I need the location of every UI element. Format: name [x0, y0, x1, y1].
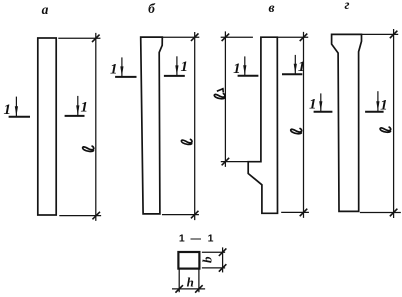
column a outline — [38, 38, 56, 215]
section square 1-1 — [178, 252, 199, 269]
dimension line l column v right — [278, 33, 308, 218]
section title 1 - 1 — [179, 233, 215, 245]
svg-text:в: в — [268, 0, 274, 15]
dimension line l column b — [163, 33, 199, 220]
dimension b (section) — [203, 248, 226, 272]
svg-text:1: 1 — [233, 61, 241, 77]
svg-text:а: а — [42, 2, 49, 17]
label l1 column v — [214, 94, 225, 99]
label b (section) — [200, 256, 215, 263]
section mark 1 left column g — [309, 94, 331, 113]
svg-text:1: 1 — [380, 97, 388, 113]
section mark 1 right column b — [165, 57, 188, 76]
svg-text:1: 1 — [208, 233, 215, 245]
section mark 1 right column a — [66, 97, 88, 116]
svg-text:1: 1 — [110, 62, 118, 78]
section mark 1 right column g — [366, 92, 388, 114]
dimension line l column a — [59, 34, 101, 221]
dimension line l column g — [361, 30, 401, 218]
label l column a — [83, 146, 94, 151]
section mark 1 left column v — [233, 57, 257, 77]
dimension line l1 column v left — [221, 32, 252, 166]
svg-text:1: 1 — [80, 100, 88, 116]
section mark 1 right column v — [283, 56, 305, 76]
column b outline — [141, 37, 163, 214]
svg-text:h: h — [187, 274, 194, 289]
column v outline with corbel — [248, 37, 277, 213]
svg-text:г: г — [345, 0, 350, 12]
label l column b — [181, 139, 192, 144]
svg-text:б: б — [148, 1, 156, 16]
svg-text:1: 1 — [181, 59, 189, 75]
label l column v — [291, 128, 302, 133]
svg-text:1: 1 — [179, 233, 186, 245]
dimension h (section) — [173, 270, 205, 292]
section mark 1 left column b — [110, 58, 136, 78]
section mark 1 left column a — [3, 97, 29, 118]
svg-text:1: 1 — [298, 59, 306, 75]
svg-text:b: b — [200, 256, 215, 263]
svg-text:—: — — [190, 233, 202, 245]
svg-text:1: 1 — [309, 97, 317, 113]
column g outline with capital head — [332, 34, 362, 211]
label l column g — [380, 127, 391, 132]
svg-text:1: 1 — [3, 102, 11, 118]
